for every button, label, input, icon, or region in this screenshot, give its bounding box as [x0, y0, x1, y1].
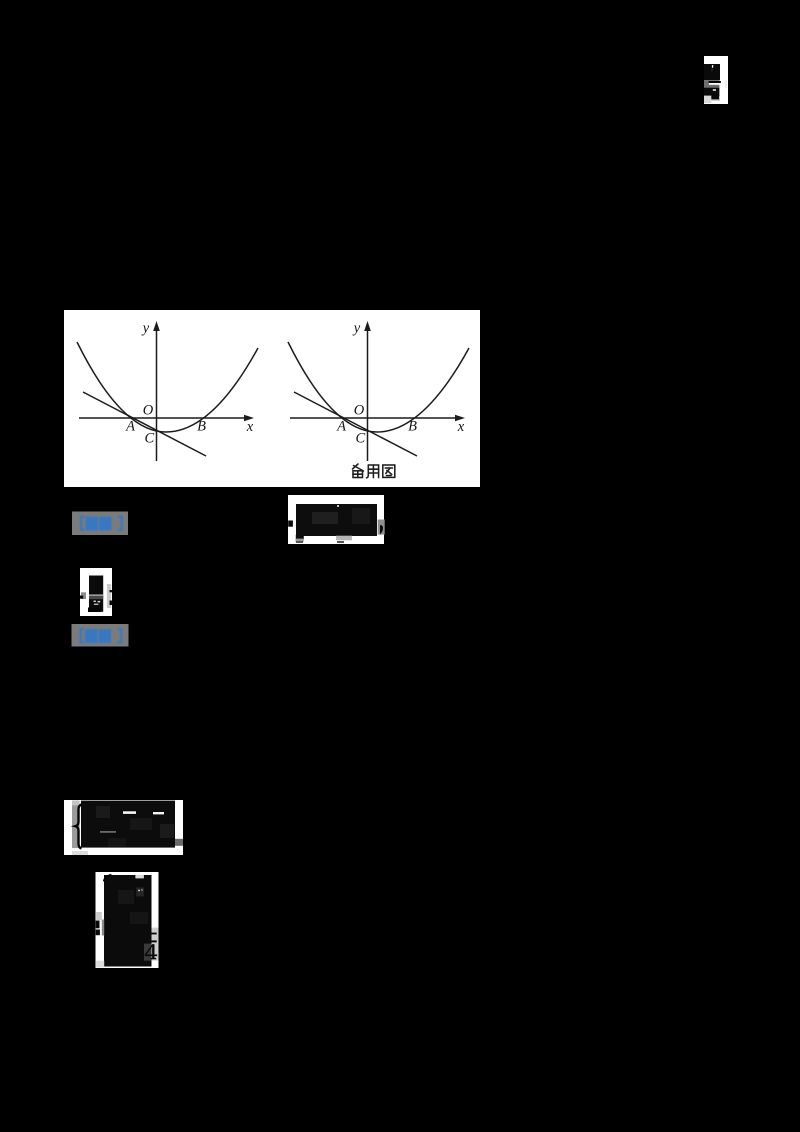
- secant line: [83, 392, 206, 456]
- equals: [151, 933, 157, 935]
- blue tag 1: [72, 512, 128, 536]
- formula image 3 (equation system): [64, 800, 183, 855]
- x-axis: [79, 417, 247, 419]
- digit 4: [145, 944, 157, 958]
- svg-text:y: y: [352, 321, 361, 337]
- formula image 4 (second system): [96, 872, 159, 968]
- svg-text:B: B: [197, 419, 206, 435]
- graph 1: [77, 326, 258, 461]
- top-right formula fragment: [704, 56, 728, 104]
- brace top curl: [104, 875, 112, 882]
- caption 备用图 (drawn strokes): [353, 464, 395, 478]
- svg-text:A: A: [125, 419, 135, 435]
- formula fragment 2: [80, 568, 113, 616]
- svg-text:x: x: [457, 419, 465, 435]
- blue tag 2: [72, 624, 129, 647]
- formula image 1 (right of tag 1): [288, 495, 385, 544]
- x-axis arrowhead: [455, 415, 465, 422]
- y-axis: [156, 326, 158, 461]
- svg-text:y: y: [141, 321, 150, 337]
- svg-text:B: B: [408, 419, 417, 435]
- x-axis: [290, 417, 458, 419]
- secant line: [294, 392, 417, 456]
- svg-text:O: O: [143, 403, 154, 419]
- y-axis: [367, 326, 369, 461]
- parabola: [288, 342, 469, 432]
- svg-text:C: C: [144, 431, 154, 447]
- svg-text:C: C: [355, 431, 365, 447]
- white graph figure box: [64, 310, 480, 487]
- char 3: [383, 465, 395, 477]
- char 2: [367, 465, 369, 478]
- y-axis arrowhead: [153, 321, 160, 331]
- graph 2 (shifted copy): [288, 321, 469, 462]
- char 1: [353, 464, 359, 469]
- svg-text:O: O: [354, 403, 365, 419]
- parabola: [77, 342, 258, 432]
- x-axis arrowhead: [244, 415, 254, 422]
- svg-text:A: A: [336, 419, 346, 435]
- brace: [76, 805, 82, 849]
- y-axis arrowhead: [364, 321, 371, 331]
- svg-text:x: x: [246, 419, 254, 435]
- right gray panel: [152, 928, 159, 961]
